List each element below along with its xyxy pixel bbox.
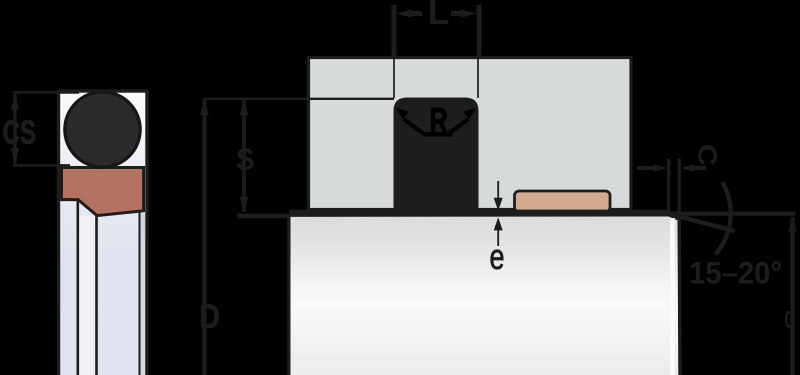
chamfer angle ray	[669, 214, 735, 231]
seal body step line 2	[95, 216, 98, 375]
svg-text:C: C	[692, 144, 722, 166]
interface band (housing bottom / shaft top)	[289, 210, 669, 219]
dimension L line right	[451, 11, 465, 16]
dimension e lower line	[497, 224, 499, 246]
radius arrow left (knockout)	[404, 119, 425, 135]
groove cavity (solid ink fill, rounded top corners)	[394, 98, 479, 212]
seal body right sliver shade	[141, 214, 146, 375]
dimension L line left	[408, 11, 422, 16]
dimension L right witness	[477, 5, 482, 57]
shaft surface extension line (left)	[237, 214, 289, 219]
svg-text:d: d	[785, 301, 795, 335]
seal body light panel	[79, 216, 96, 375]
svg-text:CS: CS	[3, 115, 36, 152]
dimension C witness right	[678, 159, 681, 219]
seal body column (left figure)	[59, 91, 148, 375]
dimension e arrow down	[494, 198, 503, 211]
dimension C line left with arrow	[637, 166, 656, 170]
dimension CS line	[13, 94, 16, 164]
dimension e upper line	[497, 181, 499, 205]
svg-text:S: S	[236, 142, 255, 177]
housing block (with groove)	[309, 58, 632, 210]
svg-text:D: D	[200, 298, 220, 336]
dimension CS extension top	[13, 91, 79, 94]
dimension d line	[790, 217, 794, 375]
groove depth extension line (S level)	[203, 98, 395, 100]
dimension CS arrow up	[11, 94, 20, 110]
elastomer back-up (terracotta)	[62, 168, 144, 216]
dimension L left witness	[392, 5, 397, 57]
groove right extension thin line	[477, 58, 479, 99]
svg-text:e: e	[490, 236, 505, 277]
seal body edge line 3	[139, 212, 141, 375]
o-ring	[65, 92, 140, 167]
svg-text:15–20°: 15–20°	[689, 256, 782, 291]
dimension D line	[203, 99, 207, 375]
groove left extension thin line	[393, 58, 395, 99]
shaft	[289, 215, 680, 375]
seal body step line 1	[77, 199, 80, 375]
dimension D arrow up	[200, 100, 209, 116]
dimension CS extension bottom	[13, 164, 70, 167]
dimension C line right with arrow	[692, 166, 706, 170]
dimension d arrow up	[788, 216, 797, 232]
dimension CS arrow down	[11, 148, 20, 164]
dimension S arrow up	[240, 100, 249, 116]
radius arrow right (knockout)	[448, 119, 469, 135]
dimension e arrow up	[494, 217, 503, 230]
dimension C witness left	[667, 159, 670, 214]
dimension S line	[242, 100, 246, 212]
svg-text:R: R	[430, 101, 448, 141]
surface reference line (right)	[666, 212, 796, 216]
shaft edge highlight	[670, 218, 675, 375]
back-up ring (tan)	[515, 191, 611, 212]
radius arrow bar under R (knockout)	[424, 132, 453, 137]
svg-text:L: L	[428, 0, 449, 32]
dimension S arrow down	[240, 197, 249, 213]
chamfer angle arc	[716, 183, 731, 255]
